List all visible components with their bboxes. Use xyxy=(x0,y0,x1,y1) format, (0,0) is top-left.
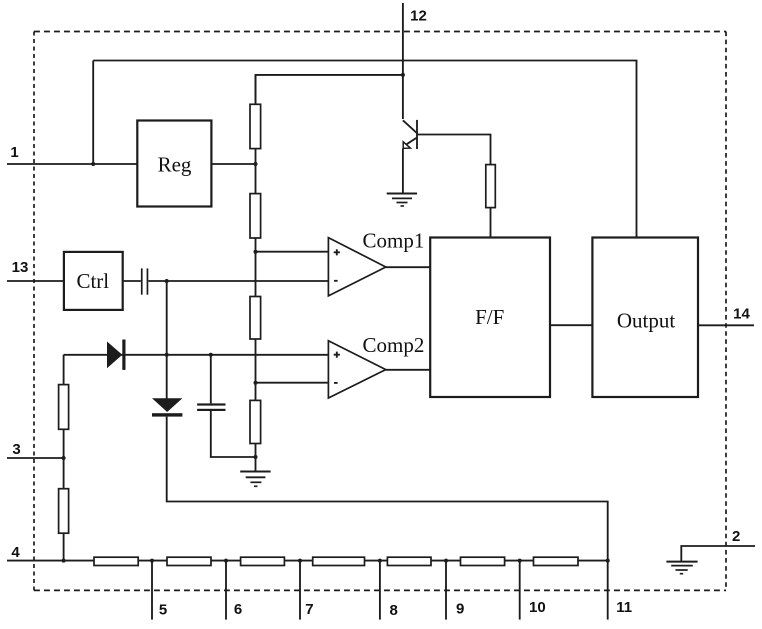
wire: pin1 riser to top bus xyxy=(92,61,94,165)
resistor R9 xyxy=(167,557,211,565)
pin 9 stub wire xyxy=(445,561,447,620)
svg-text:4: 4 xyxy=(11,544,20,561)
wire: divider tap to Comp1 + input xyxy=(256,251,328,253)
wire: divider tap to Comp2 - input xyxy=(256,382,328,384)
wire: Vref bus from divider top to pin12 line xyxy=(256,75,403,105)
resistor R3 xyxy=(250,297,261,340)
transistor Q1 emitter diagonal with arrow xyxy=(405,138,417,146)
svg-text:Comp2: Comp2 xyxy=(363,333,425,357)
capacitor C1 (series coupling) xyxy=(141,268,143,294)
wire: discharge node row (diode D1 row) xyxy=(64,354,329,356)
node: pin6 junction xyxy=(224,559,228,563)
pin 7 stub wire xyxy=(299,561,301,620)
wire: C2 bottom to divider ground node xyxy=(211,411,256,457)
pin 8 stub wire xyxy=(379,561,381,620)
transistor Q1 base bar xyxy=(416,120,418,149)
node: pin3 junction xyxy=(62,456,66,460)
diode D2 (to ground rail) xyxy=(152,398,182,412)
resistor R1 xyxy=(250,104,261,148)
svg-text:11: 11 xyxy=(616,599,632,616)
svg-text:14: 14 xyxy=(733,305,750,322)
wire: Comp1 output to F/F xyxy=(386,266,431,268)
resistor R4 xyxy=(250,400,261,443)
flip-flop block F/F xyxy=(430,238,550,398)
node: divider tap at Reg xyxy=(254,162,258,166)
output block Output xyxy=(592,238,698,398)
node: pin8 junction xyxy=(378,559,382,563)
svg-text:Output: Output xyxy=(617,308,676,332)
control block Ctrl xyxy=(64,252,123,310)
wire: Reg output to divider xyxy=(211,163,255,165)
op-amp comparator Comp2 xyxy=(328,341,385,398)
pin 2 stub wire xyxy=(681,546,755,561)
svg-text:13: 13 xyxy=(12,259,29,276)
svg-text:8: 8 xyxy=(390,602,398,619)
wire: Q1 emitter to ground xyxy=(402,148,404,193)
node: C1 output junction xyxy=(165,279,169,283)
pin 5 stub wire xyxy=(151,561,153,620)
node: pin10 junction xyxy=(518,559,522,563)
resistor R12 xyxy=(387,557,431,565)
wire: C1 node down to diode D2 xyxy=(166,281,168,399)
pin 3 stub wire xyxy=(7,457,64,459)
svg-text:1: 1 xyxy=(10,144,18,161)
svg-text:Ctrl: Ctrl xyxy=(76,269,109,293)
resistor R6 xyxy=(59,385,69,430)
node: pin1 junction xyxy=(91,162,95,166)
svg-text:10: 10 xyxy=(529,599,546,616)
regulator block Reg xyxy=(137,121,211,207)
node: pin7 junction xyxy=(298,559,302,563)
capacitor C2 xyxy=(197,403,225,405)
svg-text:9: 9 xyxy=(456,601,464,618)
resistor R11 xyxy=(313,557,365,565)
wire: left branch vertical (pins 3/4) xyxy=(63,355,65,561)
node: pin5 junction xyxy=(150,559,154,563)
op-amp comparator Comp1 xyxy=(328,238,385,296)
wire: Ctrl to capacitor C1 xyxy=(123,280,141,282)
wire: resistor divider chain vertical xyxy=(255,75,257,472)
svg-text:Reg: Reg xyxy=(158,153,192,177)
node: pin12 junction xyxy=(401,73,405,77)
ground under Q1 xyxy=(387,194,417,207)
pin 6 stub wire xyxy=(225,561,227,620)
wire: cap branch down xyxy=(210,355,212,404)
svg-text:5: 5 xyxy=(159,602,167,619)
resistor R8 xyxy=(94,557,138,565)
svg-text:Comp1: Comp1 xyxy=(363,229,425,253)
pin 14 stub wire xyxy=(698,324,754,326)
svg-text:12: 12 xyxy=(410,8,427,25)
pin 13 stub wire xyxy=(7,280,64,282)
svg-text:7: 7 xyxy=(305,601,313,618)
pin 4 stub wire and bottom resistor chain xyxy=(7,560,608,562)
node: pin11 junction xyxy=(606,559,610,563)
pin 1 stub wire xyxy=(7,163,137,165)
transistor Q1 collector diagonal xyxy=(403,120,417,133)
svg-text:F/F: F/F xyxy=(475,305,504,329)
node: D1 cathode junction xyxy=(165,353,169,357)
wire: top bus to Output block xyxy=(93,61,636,238)
svg-text:3: 3 xyxy=(12,441,20,458)
wire: Q1 base to resistor R5 xyxy=(417,135,491,165)
wire: Comp2 output to F/F xyxy=(386,369,431,371)
IC package boundary (dashed) xyxy=(34,31,726,33)
svg-text:6: 6 xyxy=(234,601,242,618)
diode D1 xyxy=(107,342,122,369)
node: divider ground-return junction xyxy=(254,455,258,459)
wire: F/F to Output xyxy=(550,324,592,326)
wire: R5 to F/F top xyxy=(490,208,492,238)
node: divider tap Comp2 xyxy=(254,381,258,385)
pin 12 stub wire xyxy=(402,3,404,119)
node: divider tap Comp1 xyxy=(254,250,258,254)
ground at pin 2 xyxy=(666,562,697,574)
wire: C1 to Comp1 inverting input xyxy=(148,280,328,282)
resistor R14 xyxy=(534,557,579,565)
resistor R2 xyxy=(250,194,261,238)
pin 10 stub wire xyxy=(519,561,521,620)
node: timing cap junction xyxy=(209,353,213,357)
resistor R13 xyxy=(461,557,505,565)
ground below divider xyxy=(240,472,270,487)
resistor R10 xyxy=(241,557,285,565)
node: pin4 junction xyxy=(62,559,66,563)
svg-text:2: 2 xyxy=(732,528,740,545)
wire: D2 cathode down and across to pin 11 column xyxy=(167,417,608,561)
resistor R5 xyxy=(486,165,496,208)
resistor R7 xyxy=(59,489,69,534)
node: pin9 junction xyxy=(444,559,448,563)
pin 11 stub wire xyxy=(607,561,609,620)
